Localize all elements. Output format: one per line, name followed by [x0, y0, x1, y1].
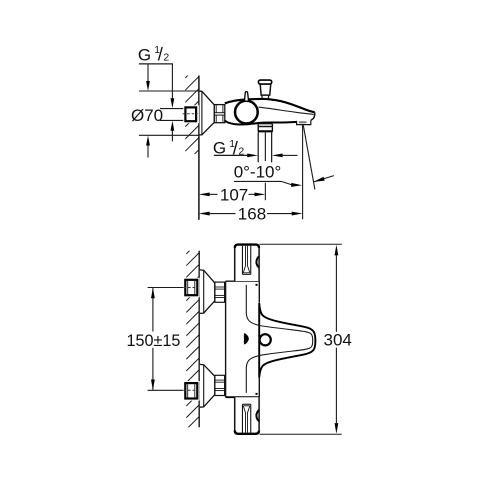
G1/2 upper dimension arrow (wall thread): [171, 64, 173, 99]
wall face line (top view): [198, 76, 200, 220]
svg-text:150±15: 150±15: [127, 332, 181, 350]
dimension 107: [199, 192, 210, 196]
wall face line (bottom view): [198, 251, 200, 427]
dimension 168: [199, 212, 210, 216]
diverter knob cap: [258, 80, 271, 84]
dimension 304: [335, 255, 337, 331]
lower escutcheon (bottom view): [200, 364, 215, 407]
diverter button circle on spout: [260, 334, 271, 345]
spout tip face: [311, 112, 315, 120]
svg-text:304: 304: [324, 331, 352, 350]
svg-text:0°-10°: 0°-10°: [234, 163, 282, 182]
upper union centerline (dashed): [184, 287, 198, 289]
extension line for 107 (shower pipe axis): [264, 183, 266, 201]
dimension 150+-15: [152, 288, 154, 331]
shower outlet pipe G1/2 (top view): [257, 132, 259, 162]
svg-text:G: G: [138, 46, 151, 65]
wall union nut (top view): [183, 105, 199, 123]
svg-text:2: 2: [163, 51, 169, 63]
wall hatching (bottom view): [186, 241, 199, 442]
thermostat cap grip slot: [241, 246, 243, 275]
aerator block under spout tip: [297, 120, 311, 124]
diverter knob stem (top view): [260, 84, 271, 95]
volume safety button (bulge on cap edge): [256, 410, 259, 421]
extension lines for 304: [260, 243, 342, 245]
G1/2 lower dimension arrow (wall thread): [171, 130, 173, 141]
lower union centerline (dashed): [184, 389, 198, 391]
lower knurled nut (bottom view): [215, 375, 225, 395]
svg-text:107: 107: [220, 186, 248, 205]
10-degree tilt line: [303, 125, 315, 189]
volume cap (bottom view, bottom): [235, 397, 259, 434]
escutcheon (top view): [200, 91, 215, 135]
O70 upper dimension arrow: [147, 64, 149, 82]
spout outline (bottom view): [259, 303, 315, 378]
lower wall union nut (bottom view): [183, 381, 199, 401]
small tick lower (body/spout edge): [256, 393, 258, 395]
shower G1/2 dimension line with arrows: [214, 154, 247, 156]
O70 lower dimension arrow: [147, 146, 149, 158]
0-10 leader line with arrow: [234, 181, 292, 185]
thermostat cap (bottom view, top): [235, 245, 259, 282]
small tick upper (body/spout edge): [256, 284, 258, 286]
wall union centerline (dashed): [183, 113, 198, 115]
temperature lever on knob: [245, 92, 249, 101]
eco button mark (filled half-moon): [244, 333, 249, 344]
extension lines for O70 (escutcheon diameter): [139, 90, 199, 92]
shower outlet block (top view): [258, 124, 272, 132]
knurled union nut (top view): [214, 105, 225, 123]
spout ridge line (top view): [259, 107, 314, 114]
thermostat handle knob (top view, bold circle): [235, 101, 258, 124]
0-degree reference line (vertical): [302, 125, 304, 220]
body bottom edge (top view): [225, 121, 297, 125]
spout inner contour (bottom view): [246, 285, 312, 393]
svg-text:168: 168: [238, 205, 266, 224]
wall hatching (top view): [185, 64, 199, 163]
body top edge (top view): [225, 99, 315, 112]
volume cap grip slot: [241, 404, 243, 433]
tilt leader arrow: [314, 176, 334, 182]
upper wall union nut (bottom view): [183, 278, 199, 298]
mixer body (bottom view): [225, 281, 227, 397]
svg-text:Ø70: Ø70: [131, 106, 163, 125]
upper escutcheon (bottom view): [200, 270, 215, 314]
upper knurled nut (bottom view): [215, 282, 225, 302]
thermostat safety button (bulge on cap edge): [256, 256, 259, 267]
extension lines for wall thread G1/2: [160, 108, 186, 110]
extension lines for 150+-15: [148, 287, 184, 289]
